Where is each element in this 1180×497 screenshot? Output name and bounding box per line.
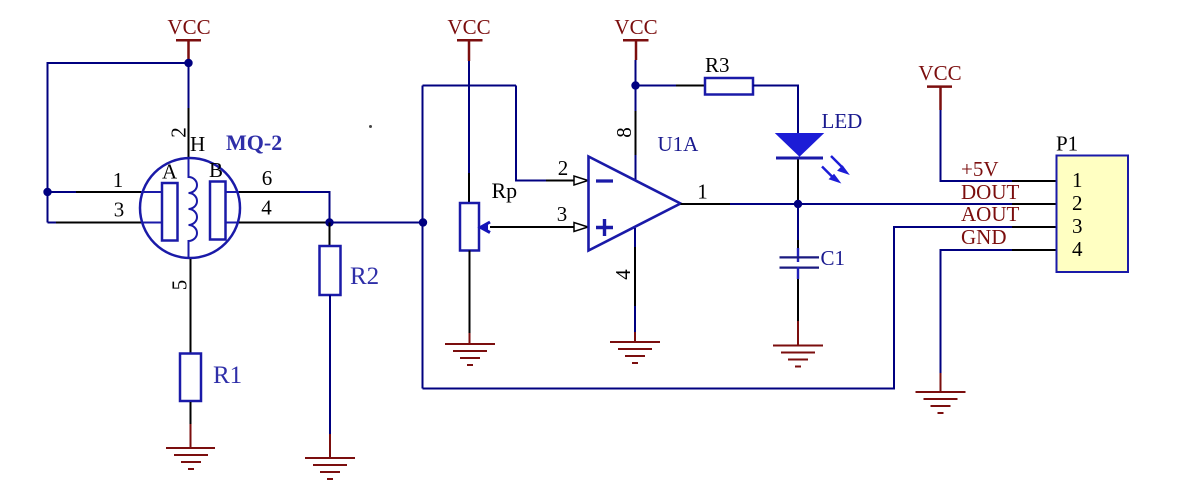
potentiometer Rp bbox=[460, 203, 479, 251]
ground G5 bbox=[305, 458, 355, 479]
wire junction to loop bbox=[330, 222, 424, 224]
resistor R3 bbox=[705, 78, 753, 95]
wire R3 to LED bbox=[753, 86, 798, 134]
junction node pin1 bbox=[43, 188, 51, 196]
power port VCC1 bbox=[167, 15, 210, 63]
stray dot artifact bbox=[369, 125, 372, 128]
svg-text:C1: C1 bbox=[821, 246, 846, 270]
svg-text:Rp: Rp bbox=[492, 178, 518, 203]
pin 2 input arrow bbox=[574, 176, 588, 185]
svg-text:VCC: VCC bbox=[447, 15, 490, 39]
ground G2 bbox=[445, 344, 495, 365]
pin 2 (H) of MQ-2 bbox=[188, 108, 190, 158]
LED cathode bar bbox=[776, 157, 823, 160]
junction at VCC1 bbox=[184, 59, 192, 67]
heater coil bbox=[189, 158, 198, 259]
wire VCC1 down bbox=[188, 63, 190, 108]
wire pin1 bbox=[48, 191, 77, 193]
wire wiper to pin 3 bbox=[490, 226, 574, 228]
wire pin6 bbox=[239, 191, 300, 193]
svg-text:3: 3 bbox=[557, 202, 568, 226]
electrode stubs bbox=[141, 192, 239, 223]
svg-text:VCC: VCC bbox=[167, 15, 210, 39]
resistor R1 bbox=[180, 354, 201, 402]
wire R1 to ground bbox=[190, 402, 192, 424]
power port VCC3 bbox=[614, 15, 657, 60]
plus input marker bbox=[596, 219, 613, 236]
svg-text:1: 1 bbox=[113, 168, 124, 192]
wire VCC2 to Rp bbox=[468, 61, 470, 173]
pin 1 output wire bbox=[681, 203, 731, 205]
svg-text:2: 2 bbox=[167, 127, 191, 138]
power port VCC2 bbox=[447, 15, 490, 61]
svg-text:3: 3 bbox=[114, 198, 125, 222]
svg-text:DOUT: DOUT bbox=[961, 180, 1019, 204]
wire AOUT bottom rail bbox=[423, 227, 1013, 389]
svg-text:2: 2 bbox=[558, 156, 569, 180]
wire loop vertical bbox=[422, 86, 424, 389]
junction R2 bbox=[325, 218, 333, 226]
svg-text:8: 8 bbox=[612, 127, 636, 138]
wire R2 to ground bbox=[329, 295, 331, 434]
wire GND to P1 pin 4 bbox=[941, 250, 1013, 373]
power port VCC4 bbox=[918, 61, 961, 110]
svg-text:MQ-2: MQ-2 bbox=[226, 130, 282, 155]
wire loop top bbox=[423, 85, 517, 87]
LED diode bbox=[776, 134, 823, 157]
wire DOUT bbox=[798, 203, 1012, 205]
wiper arrow bbox=[481, 222, 491, 233]
svg-text:R1: R1 bbox=[213, 362, 242, 389]
svg-text:H: H bbox=[190, 132, 205, 156]
svg-text:5: 5 bbox=[168, 280, 192, 291]
junction output bbox=[794, 200, 802, 208]
pin R2 top bbox=[329, 223, 331, 247]
ground G4 bbox=[773, 346, 823, 367]
connector P1 bbox=[1057, 156, 1129, 273]
wire VCC3 to R3 bbox=[636, 85, 677, 87]
svg-text:4: 4 bbox=[261, 196, 272, 220]
svg-text:R3: R3 bbox=[705, 53, 730, 77]
svg-text:A: A bbox=[162, 160, 178, 184]
electrode B bbox=[210, 182, 226, 240]
junction loop bbox=[419, 218, 427, 226]
wire VCC4 to P1 pin 1 bbox=[941, 110, 1013, 181]
svg-text:R2: R2 bbox=[350, 263, 379, 290]
op-amp U1A bbox=[589, 157, 681, 251]
svg-text:+5V: +5V bbox=[961, 157, 999, 181]
pin 8 op-amp bbox=[635, 86, 637, 112]
svg-text:GND: GND bbox=[961, 225, 1007, 249]
wire to pin 2 bbox=[516, 86, 546, 181]
svg-text:4: 4 bbox=[1072, 237, 1083, 261]
svg-text:LED: LED bbox=[822, 109, 863, 133]
svg-text:6: 6 bbox=[262, 166, 273, 190]
svg-text:P1: P1 bbox=[1056, 132, 1078, 156]
svg-text:4: 4 bbox=[611, 269, 635, 280]
svg-text:1: 1 bbox=[1072, 168, 1083, 192]
electrode A bbox=[162, 183, 178, 241]
wire junction to C1 bbox=[797, 204, 799, 240]
svg-text:VCC: VCC bbox=[614, 15, 657, 39]
junction VCC3 bbox=[631, 81, 639, 89]
svg-text:AOUT: AOUT bbox=[961, 202, 1019, 226]
svg-text:3: 3 bbox=[1072, 214, 1083, 238]
pin 3 input arrow bbox=[574, 223, 588, 232]
svg-text:1: 1 bbox=[697, 180, 708, 204]
ground G1 bbox=[166, 448, 215, 469]
LED light arrow 1 bbox=[831, 156, 849, 174]
svg-text:U1A: U1A bbox=[658, 132, 700, 156]
svg-text:B: B bbox=[209, 158, 223, 182]
capacitor C1 bbox=[780, 257, 820, 267]
minus input marker bbox=[596, 179, 613, 182]
ground G6 bbox=[916, 392, 966, 413]
pin Rp bottom bbox=[469, 251, 471, 334]
svg-text:2: 2 bbox=[1072, 191, 1083, 215]
pin 4 op-amp bbox=[634, 228, 636, 247]
wire LED to junction bbox=[797, 160, 799, 205]
pin 5 wire down bbox=[190, 259, 192, 354]
resistor R2 bbox=[320, 246, 341, 295]
LED light arrow 2 bbox=[822, 167, 840, 183]
ground G3 bbox=[610, 342, 660, 363]
wire pin4 bbox=[239, 222, 330, 224]
wire pin3 bbox=[48, 222, 57, 224]
svg-text:VCC: VCC bbox=[918, 61, 961, 85]
wire VCC1 to left bbox=[48, 63, 189, 223]
sensor MQ-2 body circle bbox=[140, 158, 240, 258]
pin Rp top bbox=[468, 173, 470, 203]
wire VCC3 down bbox=[635, 60, 637, 86]
wire C1 to ground bbox=[797, 267, 799, 279]
